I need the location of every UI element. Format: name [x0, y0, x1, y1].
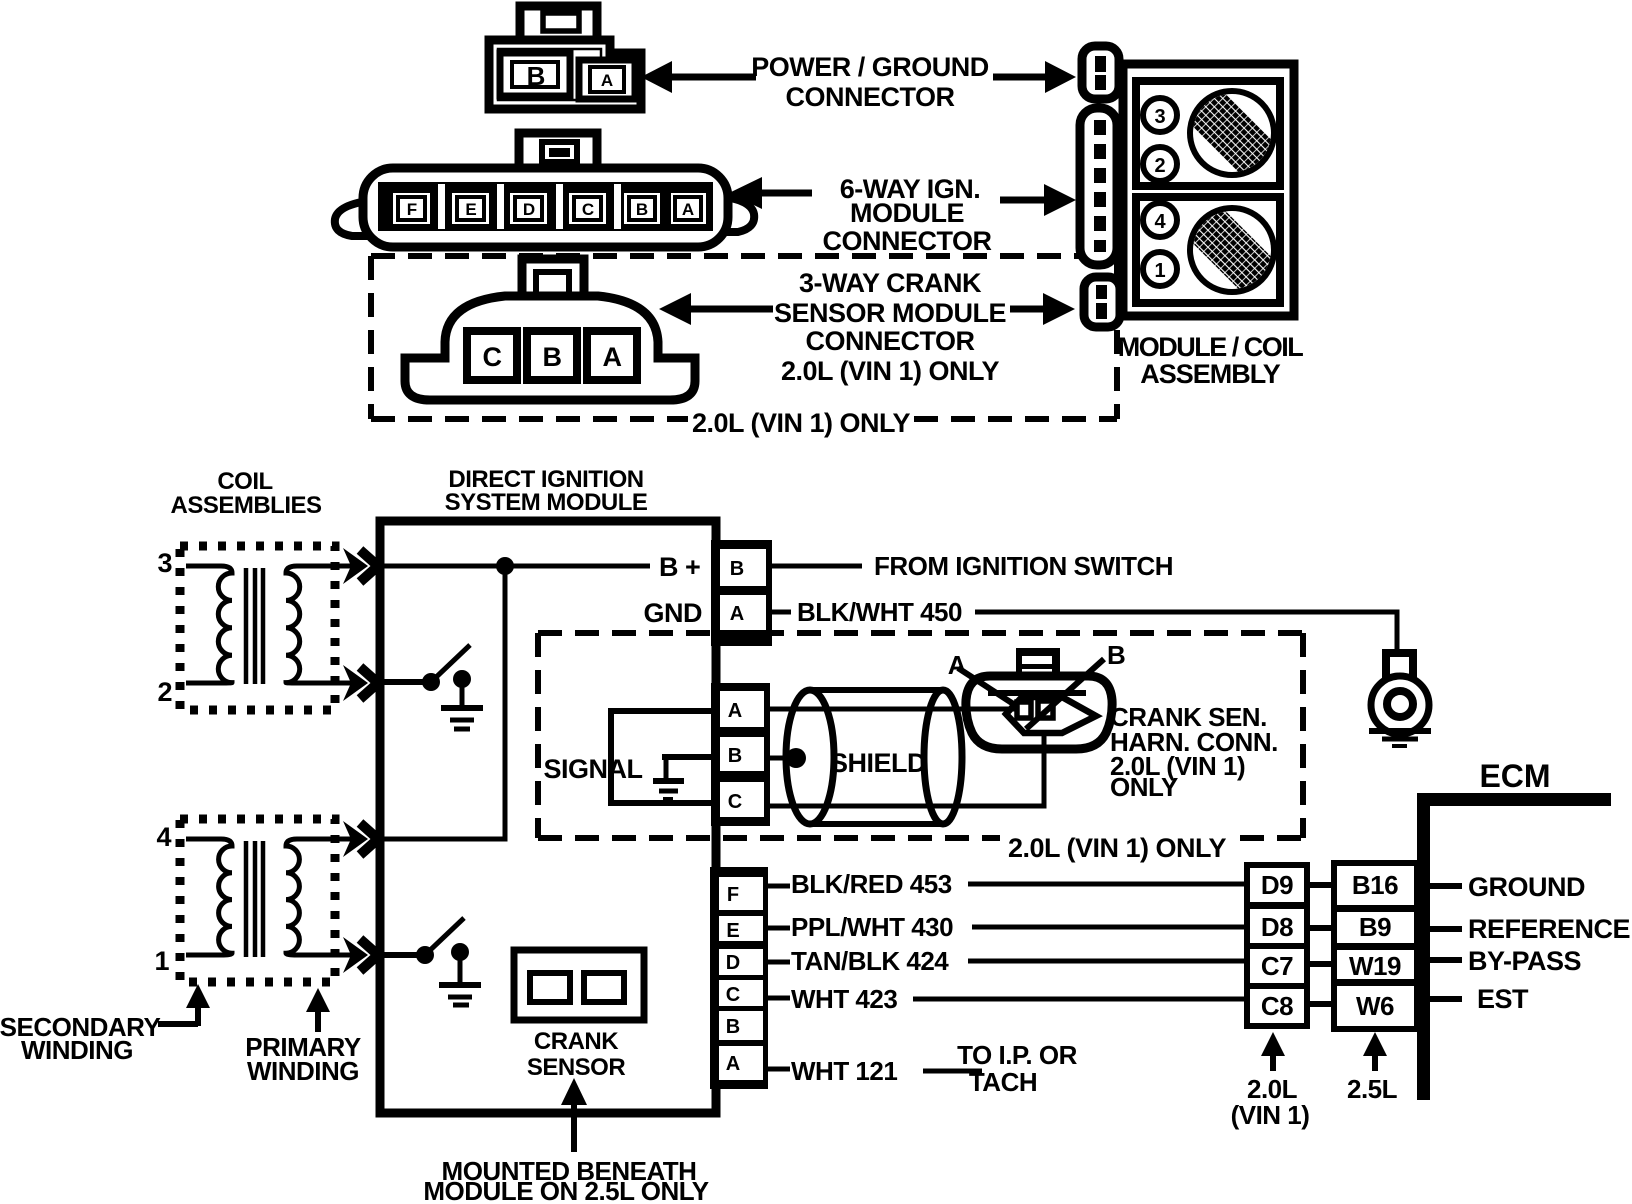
arrow to crank sensor [561, 1078, 587, 1152]
coil tower 4 [1143, 203, 1177, 237]
ECM pin stubs and labels [1430, 886, 1462, 999]
wire PPL/WHT 430 [768, 926, 790, 931]
transformer T1 primary winding [286, 566, 344, 683]
svg-text:B9: B9 [1359, 912, 1391, 942]
svg-text:SIGNAL: SIGNAL [543, 754, 642, 784]
svg-text:SENSOR: SENSOR [527, 1054, 626, 1081]
svg-text:SENSOR MODULE: SENSOR MODULE [774, 298, 1006, 328]
svg-text:1: 1 [1154, 260, 1165, 282]
svg-text:POWER / GROUND: POWER / GROUND [751, 52, 989, 82]
transformer T2 core [244, 841, 249, 957]
svg-text:EST: EST [1477, 984, 1529, 1014]
svg-text:2: 2 [157, 677, 172, 707]
connector: power/ground 2-way (B,A) [489, 6, 641, 109]
svg-text:TO I.P. OR: TO I.P. OR [957, 1040, 1077, 1070]
junction dot [496, 557, 514, 575]
wire B+ [384, 564, 650, 569]
svg-text:W6: W6 [1356, 991, 1394, 1021]
connector block B16/B9/W19/W6 (2.5L) [1334, 863, 1417, 1029]
wire BLK/RED 453 [768, 884, 790, 889]
wire pin B to internal ground [662, 754, 716, 760]
coil tower 3 [1143, 98, 1177, 132]
wire TAN/BLK 424 [768, 960, 790, 965]
svg-text:CONNECTOR: CONNECTOR [785, 82, 954, 112]
svg-text:C: C [582, 200, 594, 219]
coil tower 1 [1143, 252, 1177, 286]
module/coil assembly box [1123, 64, 1298, 316]
label CRANK SEN. HARN. CONN. 2.0L (VIN 1) ONLY [1110, 702, 1278, 802]
svg-text:ONLY: ONLY [1110, 772, 1178, 802]
svg-text:3: 3 [1154, 106, 1165, 128]
svg-text:GROUND: GROUND [1468, 872, 1585, 902]
transformer T1 core [244, 568, 249, 684]
coil assembly 3/2 dotted box [180, 546, 335, 710]
wire junction to coil 4 feed [384, 566, 505, 839]
svg-text:W19: W19 [1349, 951, 1401, 981]
svg-text:CRANK: CRANK [534, 1028, 619, 1055]
chassis ground (ring terminal) [1369, 653, 1431, 746]
svg-text:WHT 121: WHT 121 [791, 1056, 897, 1086]
transformer T2 primary winding [286, 839, 344, 955]
svg-text:E: E [465, 200, 476, 219]
pin block F-A (outputs) [710, 867, 768, 1089]
svg-text:D: D [726, 952, 740, 974]
wire pin C to connector [766, 730, 1044, 806]
svg-text:SHIELD: SHIELD [830, 748, 926, 778]
svg-text:ECM: ECM [1479, 758, 1550, 794]
signal bracket wires (pins A,C) [611, 711, 716, 803]
terminal: power/ground module side [1082, 46, 1119, 99]
svg-text:WINDING: WINDING [247, 1056, 359, 1086]
svg-text:C: C [726, 984, 740, 1006]
svg-text:ASSEMBLIES: ASSEMBLIES [170, 492, 322, 519]
svg-text:3-WAY CRANK: 3-WAY CRANK [799, 268, 982, 298]
terminal: 3-way module side [1084, 277, 1120, 327]
connector: 6-way ignition module (F-A) [335, 133, 754, 247]
ground (SW1) [441, 685, 483, 729]
svg-text:A: A [603, 342, 622, 372]
svg-text:A: A [682, 200, 694, 219]
coil 2 face (hatched) [1166, 184, 1298, 316]
svg-text:MODULE / COIL: MODULE / COIL [1118, 332, 1303, 362]
svg-text:BY-PASS: BY-PASS [1468, 946, 1581, 976]
svg-text:FROM IGNITION SWITCH: FROM IGNITION SWITCH [874, 551, 1173, 581]
svg-text:SYSTEM MODULE: SYSTEM MODULE [445, 489, 648, 516]
wire pin A (signal) through shield [766, 707, 1016, 712]
ground (SW2) [439, 958, 481, 1005]
svg-text:REFERENCE: REFERENCE [1468, 914, 1630, 944]
svg-text:3: 3 [157, 548, 172, 578]
label SECONDARY WINDING with arrow [0, 984, 210, 1065]
svg-text:B: B [527, 61, 546, 91]
arrow to 3-way connector [659, 293, 773, 325]
dashed box 2.0L (VIN 1) ONLY (top section) [371, 256, 1117, 419]
ground (signal) [653, 757, 684, 799]
svg-text:B: B [730, 558, 744, 580]
svg-text:TAN/BLK 424: TAN/BLK 424 [791, 946, 949, 976]
arrow to module 2-way terminal [993, 61, 1076, 93]
connector: 3-way crank sensor module (C,B,A) [405, 259, 695, 400]
wire pin A BLK/WHT 450 [768, 610, 791, 615]
terminal: 6-way module side [1080, 108, 1117, 265]
svg-text:2: 2 [1154, 155, 1165, 177]
svg-text:D9: D9 [1261, 870, 1293, 900]
svg-text:PPL/WHT 430: PPL/WHT 430 [791, 912, 953, 942]
svg-text:TACH: TACH [969, 1067, 1037, 1097]
arrow to 3-way module terminal [1010, 293, 1075, 325]
svg-text:B16: B16 [1352, 870, 1398, 900]
svg-text:COIL: COIL [217, 468, 272, 495]
svg-text:MODULE ON 2.5L ONLY: MODULE ON 2.5L ONLY [423, 1176, 708, 1204]
crank sensor harness connector [966, 648, 1112, 749]
svg-text:2.0L (VIN 1) ONLY: 2.0L (VIN 1) ONLY [692, 408, 911, 438]
jumper wires between blocks [1307, 885, 1334, 1004]
svg-text:B: B [1107, 640, 1125, 670]
switch SW2 (coil 4/1 primary) [384, 918, 469, 964]
svg-text:C7: C7 [1261, 951, 1293, 981]
svg-text:F: F [407, 200, 417, 219]
svg-text:BLK/WHT 450: BLK/WHT 450 [797, 597, 962, 627]
svg-text:2.5L: 2.5L [1347, 1074, 1398, 1104]
wire WHT 423 [768, 996, 790, 1001]
svg-text:4: 4 [156, 822, 171, 852]
transformer T2 secondary winding [186, 839, 232, 955]
svg-text:B: B [726, 1016, 740, 1038]
wire pin B to shield dot [766, 756, 793, 761]
wire WHT 121 [768, 1067, 790, 1072]
arrow to power/ground connector [641, 61, 756, 93]
svg-text:F: F [727, 884, 739, 906]
wire coil2 primary bottom to module [335, 937, 378, 973]
switch SW1 (coil 3/2 primary) [384, 645, 471, 691]
svg-text:GND: GND [644, 598, 703, 628]
coil assembly 4/1 dotted box [180, 819, 335, 982]
svg-text:MODULE: MODULE [850, 198, 964, 228]
junction dot on shield [786, 748, 806, 768]
svg-text:4: 4 [1154, 211, 1166, 233]
svg-text:BLK/RED 453: BLK/RED 453 [791, 869, 952, 899]
wire coil1 primary top to module [335, 548, 378, 584]
svg-text:C: C [483, 342, 502, 372]
svg-text:ASSEMBLY: ASSEMBLY [1140, 359, 1281, 389]
svg-text:WHT 423: WHT 423 [791, 984, 897, 1014]
svg-text:2.0L (VIN 1) ONLY: 2.0L (VIN 1) ONLY [781, 356, 1000, 386]
leader A (crank conn) [958, 668, 1018, 707]
wire coil2 primary top to module [335, 821, 378, 857]
connector block D9/D8/C7/C8 (2.0L) [1247, 865, 1307, 1026]
arrow to 6-way connector [729, 177, 812, 209]
svg-text:C: C [728, 791, 742, 813]
svg-text:A: A [948, 650, 967, 680]
wire coil1 primary bottom to module [335, 665, 378, 701]
svg-text:(VIN 1): (VIN 1) [1231, 1100, 1310, 1130]
svg-text:A: A [730, 603, 744, 625]
svg-text:A: A [601, 71, 613, 90]
arrow 2.5L [1347, 1032, 1398, 1104]
shield (cylinder) [786, 690, 962, 824]
wire pin B to ignition switch [768, 564, 862, 569]
coil 1 face (hatched) [1166, 67, 1298, 199]
pin block B/A (power) [711, 540, 772, 646]
dashed box: SIGNAL 2.0L (VIN 1) ONLY [538, 633, 1303, 838]
arrow to 6-way module terminal [1000, 184, 1076, 216]
leader B (crank conn) [1026, 659, 1104, 729]
svg-text:CONNECTOR: CONNECTOR [822, 226, 991, 256]
wire BLK/WHT 450 to chassis ground [975, 612, 1397, 653]
transformer T1 secondary winding [186, 566, 232, 683]
svg-text:1: 1 [154, 946, 169, 976]
svg-text:WINDING: WINDING [21, 1035, 133, 1065]
arrow 2.0L (VIN 1) [1231, 1032, 1310, 1130]
ECM enclosure [1417, 758, 1611, 1100]
svg-text:C8: C8 [1261, 991, 1293, 1021]
pin block A/B/C (signal) [711, 683, 770, 826]
svg-text:D8: D8 [1261, 912, 1293, 942]
svg-text:CONNECTOR: CONNECTOR [805, 326, 974, 356]
svg-text:D: D [523, 200, 535, 219]
svg-text:2.0L (VIN 1) ONLY: 2.0L (VIN 1) ONLY [1008, 833, 1227, 863]
svg-text:A: A [726, 1053, 740, 1075]
DIS module box [380, 521, 716, 1113]
svg-text:B +: B + [659, 552, 700, 582]
crank sensor box [514, 950, 644, 1020]
coil tower 2 [1143, 147, 1177, 181]
svg-text:A: A [728, 700, 742, 722]
svg-text:E: E [726, 920, 739, 942]
svg-text:B: B [543, 342, 562, 372]
svg-text:B: B [728, 745, 742, 767]
svg-text:B: B [636, 200, 648, 219]
label PRIMARY WINDING with arrow [245, 988, 361, 1086]
